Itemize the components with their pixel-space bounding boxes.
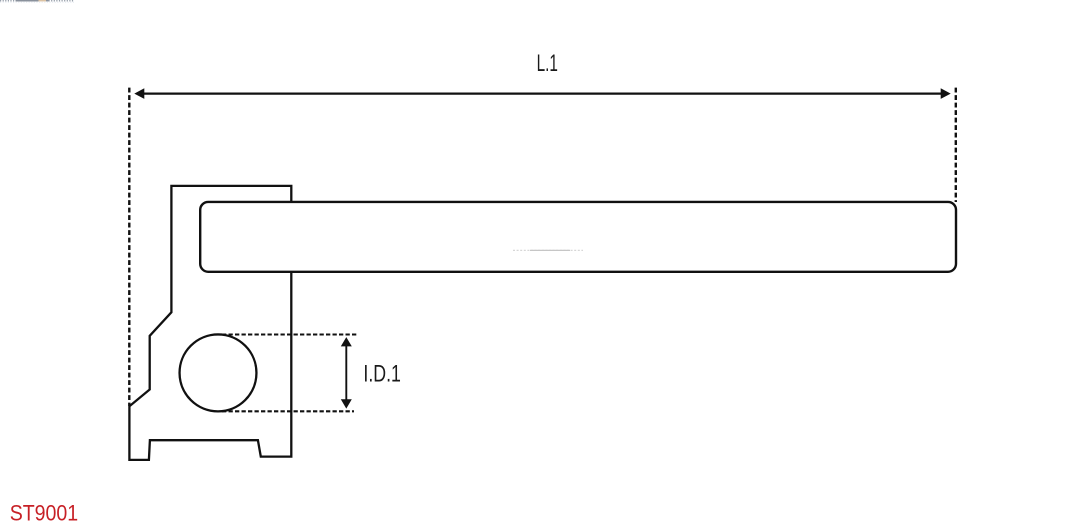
svg-text:ST9001: ST9001 [10, 500, 79, 525]
dimension line L.1 [134, 88, 950, 99]
left extension dashed line [128, 88, 130, 406]
dimension arrow I.D.1 [341, 337, 352, 409]
dotted extension line bottom of hole [222, 410, 354, 412]
svg-text:L.1: L.1 [537, 50, 558, 77]
hole circle [180, 334, 257, 411]
shaft bar [200, 202, 956, 272]
dotted extension line top of hole [222, 333, 358, 335]
bracket outline [129, 186, 291, 460]
right extension dashed line [955, 88, 957, 202]
svg-text:I.D.1: I.D.1 [363, 361, 401, 388]
cropped logo remnant top-left [0, 1, 74, 3]
watermark line inside bar [513, 249, 583, 251]
